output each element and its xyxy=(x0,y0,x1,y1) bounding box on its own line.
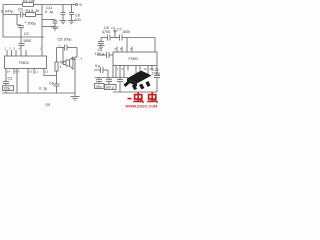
capacitor to ground left xyxy=(100,38,102,42)
ground xyxy=(60,20,67,22)
svg-text:0. 047μ: 0. 047μ xyxy=(1,10,13,14)
ground xyxy=(68,20,75,22)
svg-text:R3: R3 xyxy=(60,61,65,65)
svg-text:(a): (a) xyxy=(46,103,50,107)
svg-text:WWW.DZSC.COM: WWW.DZSC.COM xyxy=(126,104,158,108)
capacitor C8 xyxy=(71,5,73,13)
wire output xyxy=(62,48,64,65)
capacitor C9 xyxy=(20,12,22,18)
svg-text:100 μ: 100 μ xyxy=(106,86,114,90)
capacitor C6 xyxy=(56,76,58,85)
svg-text:C8: C8 xyxy=(75,13,80,17)
resistor R3 xyxy=(56,48,58,63)
pin numbers U1 top xyxy=(5,47,42,51)
node +V terminal left circuit xyxy=(76,4,78,6)
svg-text:C6: C6 xyxy=(49,82,54,86)
resistor R4 xyxy=(26,13,36,17)
capacitor C3 100u xyxy=(5,74,7,82)
op-amp U1 FSB10 xyxy=(5,56,47,69)
svg-text:13: 13 xyxy=(45,70,49,74)
svg-text:100μ: 100μ xyxy=(152,72,160,76)
svg-text:100 μ: 100 μ xyxy=(95,52,104,56)
resistor R1 on rail xyxy=(23,3,34,7)
svg-text:R1 10k: R1 10k xyxy=(23,0,35,3)
logo text chong-chong (drawn glyphs) xyxy=(128,92,158,102)
capacitor 100u electrolytic b xyxy=(108,78,110,80)
ground under C11 xyxy=(52,26,59,28)
pins top U1 xyxy=(6,50,8,56)
wire vertical to pin 1 xyxy=(41,5,43,51)
capacitor mid xyxy=(119,71,121,80)
pin numbers U2 top xyxy=(115,47,133,51)
svg-text:0. 1μ: 0. 1μ xyxy=(39,87,47,91)
pin numbers U2 bottom xyxy=(117,67,153,71)
capacitor C7 1000 xyxy=(119,35,121,41)
wire bottom bus xyxy=(2,92,75,94)
wire speaker right xyxy=(76,48,78,58)
wire small grid segment xyxy=(42,19,55,21)
node +V terminal right circuit xyxy=(114,30,116,32)
svg-text:100μ: 100μ xyxy=(3,87,10,91)
svg-text:C7: C7 xyxy=(117,27,122,31)
svg-text:5 μ: 5 μ xyxy=(95,64,100,68)
wire mid horizontal xyxy=(3,36,44,38)
capacitor C8b 4700 xyxy=(107,35,109,41)
capacitor C11 xyxy=(54,20,56,22)
wire top supply rail left circuit xyxy=(3,4,76,6)
wire lower bus right xyxy=(113,91,157,93)
capacitor C16 xyxy=(156,66,158,76)
wire input row xyxy=(3,14,20,16)
capacitor C1 input xyxy=(97,54,106,56)
svg-text:1000: 1000 xyxy=(122,30,130,34)
wire left vertical input branch xyxy=(2,5,4,38)
capacitor C5 output coupling xyxy=(57,47,65,49)
pins bottom U1 xyxy=(5,69,7,75)
svg-text:FSB10: FSB10 xyxy=(129,57,139,61)
capacitor to ground mid xyxy=(62,5,64,13)
pins bottom U2 xyxy=(115,66,117,71)
svg-text:C2: C2 xyxy=(24,32,29,36)
capacitor C10 200u electrolytic xyxy=(16,15,18,26)
svg-text:C5 100μ: C5 100μ xyxy=(58,38,72,42)
wire zobel branch xyxy=(44,74,57,76)
svg-text:100: 100 xyxy=(75,18,81,22)
capacitor C2b 5u row xyxy=(94,69,100,71)
svg-text:10: 10 xyxy=(144,67,148,71)
svg-text:11: 11 xyxy=(35,70,38,74)
svg-text:+: + xyxy=(25,21,27,25)
wire pin drops xyxy=(16,74,18,93)
wire bus right circuit xyxy=(95,77,128,79)
ground main xyxy=(74,93,76,97)
svg-text:4700: 4700 xyxy=(102,30,110,34)
svg-text:100μ: 100μ xyxy=(95,85,102,89)
capacitor C2 1000 xyxy=(20,37,22,44)
wire to IC pins xyxy=(126,38,128,53)
wire drops under logo xyxy=(112,66,114,78)
logo ant silhouette xyxy=(124,71,152,91)
svg-text:FSB10: FSB10 xyxy=(19,61,29,65)
svg-text:10: 10 xyxy=(29,70,33,74)
svg-text:200μ: 200μ xyxy=(28,21,36,25)
svg-text:1: 1 xyxy=(60,65,62,69)
svg-text:R4 8. 2k: R4 8. 2k xyxy=(26,9,40,13)
pins top U2 xyxy=(116,47,118,53)
pin numbers U1 bottom xyxy=(7,70,49,74)
svg-text:C3: C3 xyxy=(8,77,13,81)
ground xyxy=(98,45,105,47)
capacitor 100u electrolytic a xyxy=(98,78,100,80)
speaker BL xyxy=(66,60,70,66)
svg-text:+→: +→ xyxy=(59,44,64,48)
svg-text:BL →+: BL →+ xyxy=(72,57,83,61)
svg-text:14: 14 xyxy=(7,70,11,74)
op-amp U2 FSB10 xyxy=(113,52,157,66)
svg-text:1000: 1000 xyxy=(23,39,31,43)
wire top row right circuit xyxy=(101,37,107,39)
svg-text:C9: C9 xyxy=(18,8,23,12)
svg-text:0. 1μ: 0. 1μ xyxy=(45,10,53,14)
